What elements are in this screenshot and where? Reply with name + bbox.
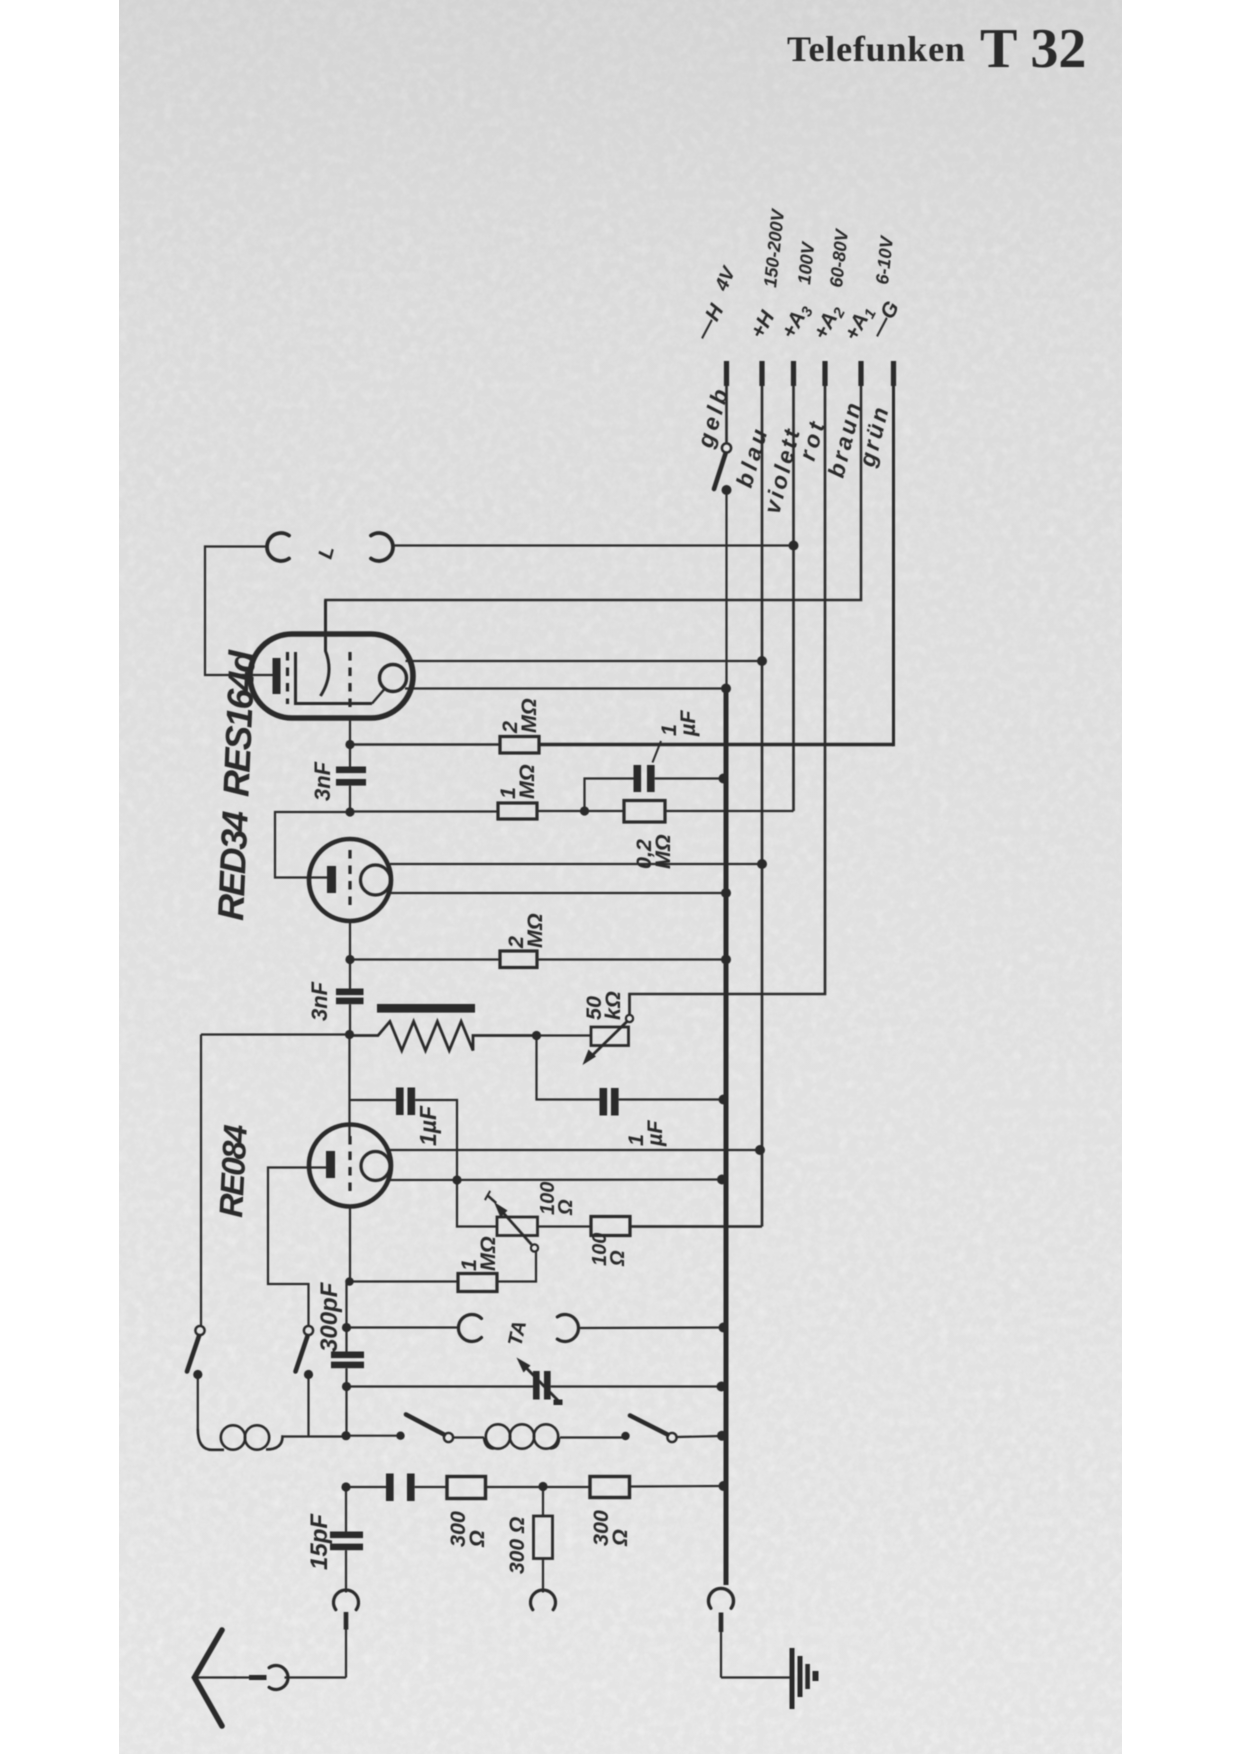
socket bump chassis — [709, 1588, 734, 1677]
terminal tick net5 — [858, 361, 863, 386]
node main-coilrow — [341, 1431, 350, 1440]
wire V3 grid down — [349, 1207, 351, 1282]
wire C5 left — [350, 1099, 397, 1101]
wire gruen vertical — [892, 386, 895, 746]
switch S4 — [630, 1416, 677, 1443]
svg-text:3nF: 3nF — [310, 761, 335, 801]
capacitor C2 3nF — [336, 989, 364, 1005]
wire grid3 to R6 — [350, 1280, 459, 1282]
resistor R8 300Ohm — [447, 1477, 486, 1499]
svg-text:MΩ: MΩ — [517, 698, 541, 733]
wire to R5 — [537, 1034, 592, 1036]
label R6 1MOhm — [457, 1236, 500, 1271]
switch S1a — [187, 1326, 205, 1372]
label blau — [731, 422, 773, 490]
label R5 50kOhm — [582, 991, 625, 1020]
pot T wiper circle — [531, 1244, 538, 1251]
terminal tick net2 — [759, 361, 764, 386]
label 4V — [711, 263, 741, 295]
wire S3 to L2 — [453, 1436, 484, 1438]
svg-text:Telefunken: Telefunken — [787, 29, 966, 69]
wire speaker left down — [205, 547, 273, 676]
label R2 1MOhm — [496, 764, 539, 799]
resistor R10 300Ohm — [590, 1477, 630, 1498]
svg-text:µF: µF — [676, 710, 700, 737]
label 100V — [794, 240, 818, 286]
label +H — [746, 307, 780, 343]
label gruen — [853, 402, 894, 470]
label C2 3nF — [307, 981, 332, 1021]
svg-text:Ω: Ω — [607, 1250, 629, 1267]
wire trimmer right — [551, 1385, 722, 1387]
svg-text:1µF: 1µF — [415, 1105, 441, 1146]
terminal tick net6 — [891, 361, 896, 386]
antenna column stub — [344, 1612, 349, 1678]
wire R2 to R3 — [537, 810, 624, 812]
wire V2 grid down — [349, 921, 351, 960]
socket bump antenna-column — [334, 1590, 359, 1610]
svg-text:MΩ: MΩ — [515, 764, 539, 799]
wire RCrow 4 — [630, 1485, 724, 1488]
wire C4 to gelb — [655, 777, 724, 779]
wire S1a to L1 — [197, 1375, 199, 1430]
wire V1 lower to gelb — [405, 687, 726, 689]
svg-text:RE084: RE084 — [212, 1124, 254, 1218]
node gelb-C4 — [719, 774, 729, 784]
ground symbol — [790, 1648, 819, 1709]
tube V1 grid1 dashed — [286, 652, 289, 704]
pot T arrow — [494, 1202, 532, 1245]
label R9 300Ohm — [506, 1517, 529, 1574]
wire R2 node up — [585, 779, 634, 812]
node R2-C4 — [580, 806, 589, 815]
node blau-V3-anode — [755, 1145, 765, 1155]
wire S2a down — [307, 1375, 309, 1437]
tube V3 envelope — [309, 1125, 391, 1207]
wire coilrow left — [309, 1435, 347, 1437]
wire C2node down — [348, 1035, 350, 1137]
capacitor C4 1uF — [634, 765, 655, 792]
label RE084 — [212, 1124, 254, 1218]
svg-text:T 32: T 32 — [980, 18, 1086, 80]
tube V1 grid3 dashed — [348, 652, 351, 712]
svg-text:µF: µF — [643, 1120, 667, 1147]
wire zz-node down — [537, 1036, 600, 1100]
node S4 contact — [621, 1432, 629, 1440]
wire rot vertical — [630, 386, 826, 1016]
resistor R2 1MOhm — [498, 803, 537, 819]
wire pot left — [201, 1033, 350, 1035]
label Telefunken — [787, 29, 966, 69]
tube V1 inner diagonal — [372, 689, 385, 704]
node zigzag-right — [532, 1031, 541, 1040]
wire main column bottom — [345, 1487, 347, 1532]
wire L2 to S4 — [560, 1436, 626, 1438]
wire braun vertical — [326, 386, 862, 651]
wire RCrow 1 — [346, 1486, 386, 1488]
antenna symbol — [195, 1630, 237, 1726]
inductor L2 — [484, 1424, 559, 1448]
node grid1-junction — [345, 740, 354, 749]
svg-text:3nF: 3nF — [307, 981, 332, 1021]
resistor R9 300Ohm vertical — [534, 1487, 553, 1593]
wire R3 to violett — [665, 810, 794, 812]
wire R4 to gelb — [537, 958, 726, 960]
svg-text:MΩ: MΩ — [523, 913, 547, 948]
node C1-bottom — [345, 807, 354, 816]
node blau-V1-anode — [757, 656, 767, 666]
node gelb-R4 — [721, 955, 731, 965]
wire blau vertical — [630, 386, 762, 1227]
pot R5 wiper circle — [626, 1015, 633, 1022]
resistor R1 2MOhm — [500, 737, 539, 754]
wire T to R7 — [538, 1225, 592, 1227]
label 6-10V — [872, 234, 897, 286]
node gelb-V3-lower — [717, 1175, 727, 1185]
wire V2 upper to blau — [390, 863, 762, 865]
terminal tick net4 — [822, 361, 827, 386]
node gelb-R8 — [719, 1481, 729, 1491]
tube V1 anode bar — [273, 658, 281, 694]
tube V3 grid dashed — [348, 1136, 351, 1198]
wire C6 to gelb — [619, 1098, 724, 1100]
wire TA left — [347, 1326, 460, 1328]
rheostat T 100Ohm — [497, 1217, 538, 1236]
socket bump R9 — [531, 1590, 556, 1610]
wire left column — [200, 1035, 202, 1327]
terminal tick net3 — [791, 361, 796, 386]
jack TA left — [458, 1315, 481, 1342]
label R1 2MOhm — [498, 698, 541, 734]
node gelb-V1-cathode — [721, 684, 731, 694]
label -G — [866, 298, 904, 343]
wire V3 anodebar left — [268, 1168, 326, 1327]
capacitor C9 15pF — [330, 1532, 363, 1551]
label C5 1uF — [415, 1105, 441, 1146]
resistor R4 2MOhm — [500, 951, 537, 968]
label +A2 — [809, 300, 849, 344]
wire TA right — [578, 1326, 724, 1329]
resistor zigzag track — [350, 1022, 537, 1051]
label R4 2MOhm — [504, 913, 547, 949]
label R10 300Ohm — [589, 1510, 632, 1547]
wire grid to R1 — [350, 743, 500, 745]
wire trimmer left — [347, 1385, 534, 1387]
tube V2 grid dashed — [348, 850, 351, 912]
svg-text:Ω: Ω — [608, 1529, 632, 1547]
label violett — [759, 424, 806, 516]
inductor L1 — [198, 1425, 283, 1450]
wire below C9 — [345, 1550, 347, 1592]
wire RCrow 2 — [415, 1486, 447, 1488]
tube V2 anode bar — [327, 866, 336, 893]
node gelb-trimmer — [717, 1382, 727, 1392]
node main-trimmer — [342, 1382, 351, 1391]
antenna plug stub — [234, 1675, 267, 1680]
wire V2 lower to gelb — [389, 892, 726, 894]
wire grid to R4 — [350, 958, 500, 960]
pot R5 arrow — [583, 1022, 628, 1066]
wire R6 to wiper — [497, 1252, 536, 1282]
label +A3 — [777, 299, 817, 343]
wire gelb upper — [725, 386, 728, 444]
wire speaker right to violett — [393, 544, 794, 546]
tube V3 anode bar — [326, 1151, 335, 1178]
wire V3 upper to blau — [390, 1149, 760, 1151]
svg-text:300pF: 300pF — [316, 1281, 343, 1352]
wire main column mid — [345, 1282, 347, 1352]
wire R7 to blau — [630, 1225, 760, 1227]
trimmer arrow — [517, 1358, 563, 1406]
capacitor C8 — [386, 1474, 415, 1502]
speaker L jack right — [371, 533, 393, 561]
label T — [480, 1188, 504, 1209]
wire V1 upper to blau — [406, 660, 763, 662]
wire gelb to junction — [725, 490, 727, 688]
wire antenna horizontal — [285, 1676, 347, 1678]
wire R5 to rot — [628, 994, 630, 1015]
svg-text:Ω: Ω — [555, 1199, 577, 1216]
resistor R7 100Ohm — [591, 1217, 630, 1236]
terminal tick net1 — [724, 361, 729, 386]
tube V1 grid2 L-wire — [296, 652, 373, 704]
svg-text:15pF: 15pF — [306, 1513, 333, 1570]
pot slider bar — [377, 1004, 475, 1013]
node V3grid-junction — [345, 1277, 354, 1286]
label R7 100Ohm — [589, 1233, 629, 1267]
wire coilrow right1 — [346, 1435, 401, 1437]
capacitor C5 1uF — [396, 1088, 415, 1116]
label braun — [823, 397, 867, 480]
tube V1 RES164d envelope — [250, 634, 413, 718]
label T 32 — [980, 18, 1086, 80]
node C2-bottom — [345, 1030, 354, 1039]
svg-text:300 Ω: 300 Ω — [506, 1517, 529, 1574]
wire C5 right — [415, 1100, 457, 1180]
wire C3 below — [345, 1368, 347, 1435]
label -H — [691, 300, 729, 344]
node blau-V2-anode — [757, 859, 767, 869]
speaker L jack left — [267, 533, 289, 561]
tube V2 cathode circle — [361, 865, 391, 895]
node main-TA — [342, 1323, 351, 1332]
node violett-speaker — [789, 541, 799, 551]
switch S3 — [406, 1415, 453, 1443]
label R3 0.2MOhm — [632, 834, 675, 869]
capacitor trimmer plates — [533, 1371, 551, 1400]
capacitor C3 300pF — [331, 1352, 364, 1369]
resistor R5 50kOhm — [591, 1027, 629, 1046]
label R8 300Ohm — [446, 1511, 489, 1548]
capacitor C6 1uF — [600, 1088, 619, 1116]
label gelb — [692, 382, 735, 451]
wire C1 to V2 anode-bar — [275, 812, 350, 878]
node grid2-junction — [345, 955, 354, 964]
socket bump antenna-plug — [269, 1666, 288, 1690]
wire S4 to gelb — [677, 1436, 722, 1437]
node S3 contact — [396, 1432, 404, 1440]
capacitor C1 3nF — [336, 767, 366, 786]
label 60-80V — [826, 227, 852, 289]
svg-text:Ω: Ω — [465, 1530, 489, 1548]
label RED34 RES164d — [210, 649, 263, 921]
wire V3 lower to gelb — [389, 1178, 722, 1181]
label 150-200V — [760, 207, 788, 289]
jack TA right — [557, 1315, 578, 1342]
tube V1 filament — [321, 600, 330, 696]
label C9 15pF — [306, 1513, 333, 1570]
tube V3 cathode circle — [361, 1152, 390, 1181]
node gelb-TA — [719, 1323, 729, 1333]
tube V2 envelope — [309, 839, 391, 921]
node main-RCrow — [341, 1482, 350, 1491]
wire node to R2 — [350, 810, 498, 812]
label C6 1uF — [624, 1120, 667, 1147]
label C3 300pF — [316, 1281, 343, 1352]
label TA — [504, 1319, 531, 1348]
wire V1 grid down — [349, 716, 351, 745]
svg-text:MΩ: MΩ — [476, 1236, 500, 1271]
resistor R3 0.2MOhm — [624, 801, 665, 823]
label +A1 — [840, 302, 880, 346]
node gelb-V2-lower — [721, 888, 731, 898]
wire main bus thick — [724, 688, 729, 1585]
label C4 1uF — [653, 710, 701, 763]
wire to ground — [721, 1676, 790, 1678]
node gelb-C7 — [719, 1095, 729, 1105]
wire violett vertical — [792, 386, 795, 811]
label rot — [794, 415, 831, 463]
label T 100Ohm — [537, 1182, 577, 1216]
wire C2 leads — [349, 960, 351, 1035]
node gelb-coilrow — [717, 1431, 727, 1441]
label C1 3nF — [310, 761, 335, 801]
resistor R6 1MOhm — [458, 1274, 497, 1292]
node S1a contact — [193, 1370, 202, 1379]
switch S2a — [296, 1326, 314, 1372]
wire R1 to gruen — [539, 743, 894, 746]
node V3-C5 — [452, 1175, 461, 1184]
wire C1 leads — [349, 748, 351, 812]
tube V1 cathode circle — [380, 665, 407, 692]
node R9 tap — [538, 1482, 547, 1491]
switch S1 on gelb lead — [714, 443, 732, 495]
wire T left — [457, 1180, 497, 1227]
svg-text:kΩ: kΩ — [601, 991, 625, 1020]
label L — [315, 544, 339, 561]
wire RCrow 3 — [486, 1486, 591, 1488]
node S2a contact — [304, 1370, 313, 1379]
wire L1 to S2a — [283, 1435, 309, 1437]
